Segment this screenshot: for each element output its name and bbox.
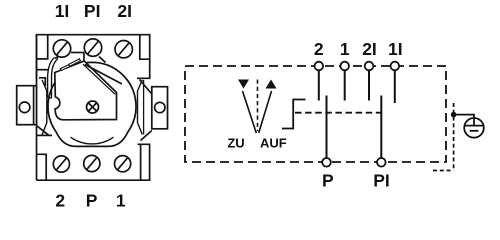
actuator bracket (282, 100, 306, 129)
bottom-right inner vertical (140, 144, 142, 180)
travel center dashed line (257, 80, 259, 132)
svg-text:1I: 1I (55, 1, 70, 21)
left spring strip molding (42, 80, 47, 135)
arrow ZU head (238, 80, 249, 89)
svg-text:1: 1 (340, 39, 350, 59)
right upper diagonal (140, 80, 152, 95)
svg-text:PI: PI (84, 1, 101, 21)
terminal screw bottom-1 (115, 156, 131, 172)
wire terminal 2I drop (368, 70, 370, 100)
svg-text:P: P (322, 171, 334, 191)
terminal screw bottom-2 (53, 156, 69, 172)
right tab hole (155, 102, 165, 112)
bottom-left notch (37, 154, 47, 180)
svg-text:2I: 2I (362, 39, 377, 59)
lever strip (48, 58, 55, 98)
top terminal strip (37, 35, 150, 79)
protective earth symbol (464, 118, 484, 138)
svg-text:P: P (86, 191, 98, 211)
right strip inner edge (143, 80, 145, 135)
left lower diagonal (37, 126, 49, 135)
cam slot facet 1 (60, 64, 71, 71)
arrow AUF head (266, 80, 277, 89)
neck between screws (71, 52, 84, 54)
svg-text:2: 2 (314, 39, 324, 59)
cam plate (55, 61, 117, 120)
terminal PI (377, 158, 386, 167)
svg-text:AUF: AUF (260, 136, 287, 151)
right spring strip molding (138, 80, 143, 135)
terminal 2 (315, 62, 324, 71)
terminal 1I (391, 62, 400, 71)
earth junction dot (451, 112, 457, 118)
coupling dashed link (295, 112, 381, 114)
lever link to screw (55, 54, 63, 59)
svg-text:ZU: ZU (227, 136, 244, 151)
left inner block (39, 78, 45, 86)
top-right corner notch (140, 35, 150, 60)
terminal 2I (365, 62, 374, 71)
body left edge (36, 35, 38, 181)
wire terminal 2 drop (318, 70, 320, 100)
left tab hole (19, 102, 30, 113)
left mounting tab (17, 86, 37, 125)
movable contact P (326, 96, 328, 159)
terminal screw top-1 (53, 40, 70, 57)
bottom strip (37, 144, 150, 180)
svg-text:2: 2 (55, 191, 65, 211)
svg-text:1: 1 (116, 191, 126, 211)
earth wire (454, 115, 474, 118)
strip bottom edge left (37, 69, 49, 71)
housing inner bottom arc (71, 137, 114, 144)
wire terminal 1 drop (344, 70, 346, 100)
cam edge chamfer (83, 64, 115, 94)
cam slot facet 2 (69, 59, 81, 67)
left tab inner edge (33, 86, 35, 125)
travel line AUF (259, 91, 272, 133)
terminal P (322, 158, 331, 167)
right lower diagonal (141, 131, 152, 141)
terminal screw bottom-P (84, 155, 100, 171)
earth dashed drop (453, 103, 455, 171)
svg-text:2I: 2I (117, 1, 132, 21)
movable contact PI (380, 96, 382, 159)
dashed enclosure box (185, 66, 446, 162)
travel line ZU (243, 91, 257, 133)
terminal 1 (340, 62, 349, 71)
wire terminal 1I drop (394, 70, 396, 103)
rotary housing outline (48, 62, 136, 146)
earth dashed stub (433, 170, 454, 172)
right mounting tab (152, 87, 168, 129)
top-left corner notch (37, 35, 48, 59)
left lower horizontal (37, 134, 52, 136)
terminal screw top-2 (115, 41, 132, 58)
svg-text:1I: 1I (388, 39, 403, 59)
terminal screw top-P (84, 39, 101, 56)
cam shaft screw (87, 101, 99, 113)
svg-text:PI: PI (373, 171, 390, 191)
